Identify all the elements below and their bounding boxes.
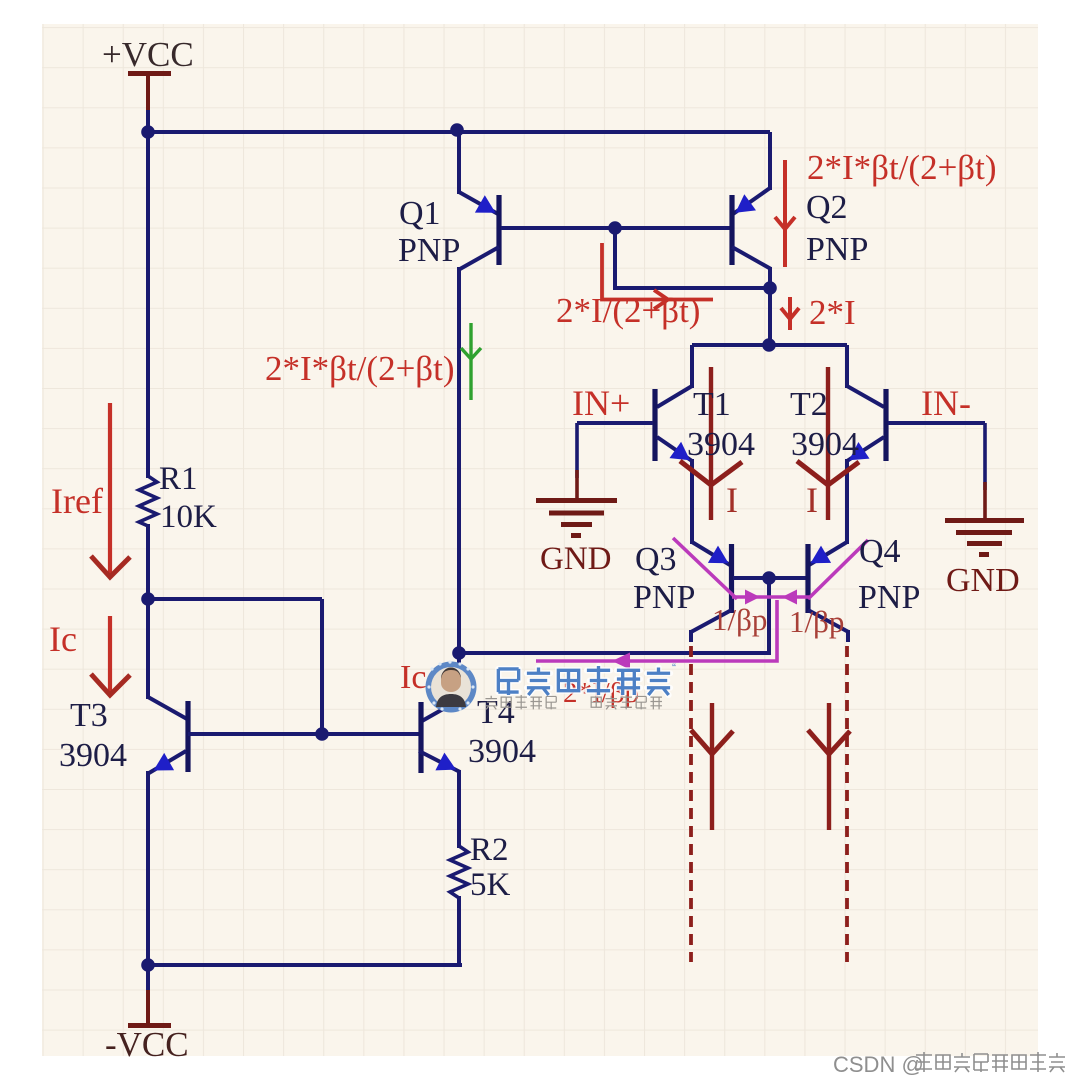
svg-text:CSDN @: CSDN @ — [833, 1052, 924, 1077]
svg-text:R2: R2 — [470, 832, 509, 868]
svg-text:2*I/(2+βt): 2*I/(2+βt) — [556, 291, 700, 330]
svg-text:-VCC: -VCC — [105, 1025, 189, 1064]
svg-text:T4: T4 — [477, 694, 515, 731]
svg-text:Q1: Q1 — [399, 195, 441, 232]
svg-text:PNP: PNP — [806, 231, 868, 268]
svg-text:“: “ — [672, 661, 676, 675]
svg-text:Q3: Q3 — [635, 541, 677, 578]
svg-text:T2: T2 — [790, 386, 828, 423]
svg-text:PNP: PNP — [398, 232, 460, 269]
svg-text:3904: 3904 — [791, 426, 859, 463]
svg-text:10K: 10K — [160, 499, 217, 535]
svg-text:T3: T3 — [70, 697, 108, 734]
svg-text:2*I: 2*I — [809, 293, 856, 332]
svg-text:PNP: PNP — [858, 579, 920, 616]
svg-text:2*I*βt/(2+βt): 2*I*βt/(2+βt) — [265, 349, 455, 388]
svg-text:3904: 3904 — [468, 733, 536, 770]
svg-text:IN+: IN+ — [572, 383, 630, 423]
svg-text:T1: T1 — [693, 386, 731, 423]
svg-text:PNP: PNP — [633, 579, 695, 616]
svg-text:2*I*βt/(2+βt): 2*I*βt/(2+βt) — [807, 148, 997, 187]
svg-text:1/βp: 1/βp — [712, 602, 767, 637]
svg-text:+VCC: +VCC — [102, 35, 194, 74]
svg-text:Q2: Q2 — [806, 189, 848, 226]
svg-text:GND: GND — [540, 541, 612, 577]
svg-text:5K: 5K — [470, 867, 511, 903]
svg-text:I: I — [806, 480, 818, 520]
svg-text:3904: 3904 — [59, 737, 127, 774]
svg-text:Q4: Q4 — [859, 533, 901, 570]
svg-text:Ic: Ic — [49, 619, 77, 659]
svg-text:R1: R1 — [159, 461, 198, 497]
svg-text:IN-: IN- — [921, 383, 971, 423]
svg-text:3904: 3904 — [687, 426, 755, 463]
svg-text:I: I — [726, 480, 738, 520]
svg-text:Iref: Iref — [51, 481, 103, 521]
svg-text:GND: GND — [946, 562, 1020, 599]
svg-text:1/βp: 1/βp — [789, 604, 844, 639]
svg-text:Ic: Ic — [400, 659, 426, 696]
